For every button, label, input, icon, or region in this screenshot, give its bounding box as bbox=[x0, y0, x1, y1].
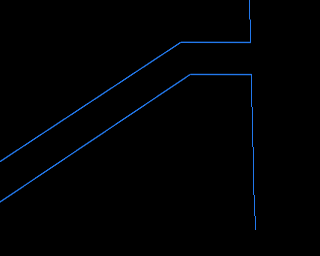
wire: lower net near-vertical open-ended segment, part 1 bbox=[251, 74, 253, 107]
wire: lower net near-vertical open-ended segment, part 2 bbox=[252, 107, 254, 147]
wire: upper net near-vertical segment from top edge, lower part after jog bbox=[250, 20, 252, 43]
wire: upper net diagonal segment to left edge bbox=[0, 42, 181, 162]
wire: lower net near-vertical open-ended segment, part 5 with open end bbox=[255, 216, 257, 230]
wire: upper net horizontal segment bbox=[181, 41, 251, 43]
wire: lower net diagonal segment from left edge bbox=[0, 74, 190, 203]
wire: lower net near-vertical open-ended segment, part 4 bbox=[254, 195, 256, 216]
wire: lower net near-vertical open-ended segment, part 3 bbox=[253, 147, 255, 195]
wire: upper net near-vertical segment from top edge, upper part bbox=[249, 0, 251, 20]
wire: lower net horizontal segment bbox=[190, 73, 251, 75]
